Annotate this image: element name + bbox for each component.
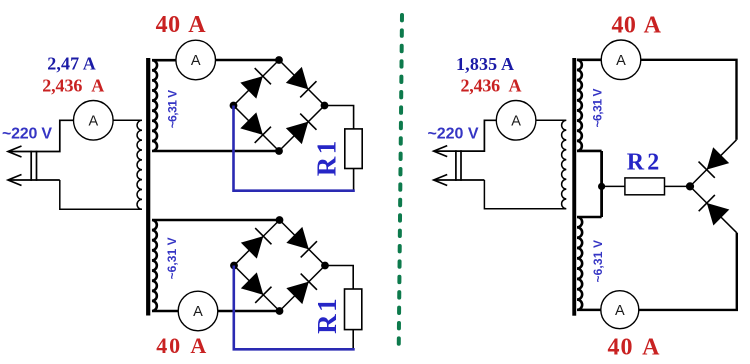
node bridge2 right xyxy=(321,262,329,270)
wire xyxy=(8,120,74,151)
ammeter A (bottom-right 40 A) xyxy=(601,291,639,329)
resistor R1 (lower) xyxy=(345,289,362,330)
wire upper diode arm xyxy=(690,140,737,187)
svg-text:A: A xyxy=(511,113,521,129)
node diode junction xyxy=(686,182,694,190)
svg-text:R 1: R 1 xyxy=(311,141,341,177)
svg-text:A: A xyxy=(191,53,201,69)
svg-text:R 2: R 2 xyxy=(627,149,660,175)
divider dashed line xyxy=(399,15,402,351)
svg-text:~6,31 V: ~6,31 V xyxy=(166,90,180,129)
wire bridge right to R1 xyxy=(325,106,354,129)
bridge rectifier VD2 diamond xyxy=(234,220,325,311)
transformer T1 core xyxy=(146,58,150,316)
wire (blue) bridge1 left node to R1 bottom xyxy=(234,106,355,191)
node bridge2 top xyxy=(276,216,284,224)
wire top-right ammeter to right rail xyxy=(641,60,737,140)
node bridge2 bottom xyxy=(276,307,284,315)
svg-text:40 A: 40 A xyxy=(156,333,206,358)
transformer T2 core xyxy=(572,58,576,316)
bridge rectifier VD1 diamond xyxy=(234,60,325,151)
wire xyxy=(434,179,485,181)
svg-text:40 A: 40 A xyxy=(608,334,661,360)
arrow top terminal xyxy=(434,146,448,157)
svg-text:40 A: 40 A xyxy=(156,12,207,38)
AC source ~220 V terminals (left circuit) xyxy=(8,120,74,185)
svg-text:A: A xyxy=(616,53,626,69)
ammeter A (top-right 40 A) xyxy=(601,40,641,80)
svg-text:2,436 A: 2,436 A xyxy=(461,76,522,96)
diode VD2.1 (left-top arm) xyxy=(241,228,272,259)
svg-text:~6,31 V: ~6,31 V xyxy=(591,240,605,283)
wire center tap to R2 xyxy=(602,185,625,187)
plug bars xyxy=(31,151,36,181)
svg-text:2,47 A: 2,47 A xyxy=(47,53,96,73)
node bridge2 left xyxy=(230,262,238,270)
wire bridge2 right to R1 lower xyxy=(325,266,353,290)
transformer T1 secondary winding 1 (~6,31 V) xyxy=(152,60,279,151)
diode VD1.2 (top-right arm) xyxy=(286,67,317,98)
svg-text:A: A xyxy=(615,303,625,319)
svg-text:~6,31 V: ~6,31 V xyxy=(591,89,605,128)
wire bottom-right ammeter to right rail xyxy=(639,233,737,310)
arrow bottom-left terminal xyxy=(8,175,22,186)
node bridge1 bottom xyxy=(275,147,283,155)
wire center tap vertical xyxy=(600,151,603,217)
wire xyxy=(434,120,497,151)
node center tap xyxy=(598,183,605,190)
transformer T2 secondary winding upper half (~6,31 V) xyxy=(577,60,602,151)
wire R1 bottom down xyxy=(353,169,355,191)
AC source ~220 V terminals (right circuit) xyxy=(434,120,497,185)
diode VD3 (upper arm) xyxy=(699,147,730,178)
svg-text:R 1: R 1 xyxy=(312,298,342,334)
resistor R1 (upper) xyxy=(345,129,362,169)
svg-text:~6,31 V: ~6,31 V xyxy=(165,237,179,279)
plug bars xyxy=(456,150,461,181)
wire lower diode arm xyxy=(690,186,737,232)
diode VD2.3 (left-bottom arm) xyxy=(241,272,272,303)
svg-text:2,436 A: 2,436 A xyxy=(42,75,104,95)
wire R2 to diode junction xyxy=(665,185,691,187)
ammeter A (lower secondary 40 A) xyxy=(178,291,218,331)
transformer T2 secondary winding lower half (~6,31 V) xyxy=(577,217,602,310)
ammeter A (left primary) xyxy=(74,101,114,141)
transformer T1 secondary winding 2 (~6,31 V) xyxy=(152,220,280,311)
svg-text:~220 V: ~220 V xyxy=(428,126,479,143)
diode VD1.3 (left-bottom arm) xyxy=(240,112,271,143)
node bridge1 right xyxy=(321,102,329,110)
arrow bottom terminal xyxy=(434,175,448,186)
node bridge1 left xyxy=(230,102,238,110)
wire ammeter to bridge bottom xyxy=(218,310,280,313)
node bridge1 top xyxy=(275,56,283,64)
resistor R2 xyxy=(625,178,665,195)
wire xyxy=(8,179,60,181)
wire ammeter to bridge top xyxy=(216,59,280,62)
wire R1 lower bottom down xyxy=(352,330,354,350)
ammeter A (upper secondary 40 A) xyxy=(176,40,216,80)
transformer T1 primary winding xyxy=(60,120,142,209)
diode VD2.2 (top-right arm) xyxy=(286,227,317,258)
diode VD4 (lower arm) xyxy=(699,195,730,226)
ammeter A (right primary) xyxy=(496,101,536,141)
wire (blue) bridge2 left node to R1 lower bottom xyxy=(234,266,355,350)
svg-text:1,835 A: 1,835 A xyxy=(456,54,514,74)
svg-text:A: A xyxy=(88,113,98,129)
svg-text:40 A: 40 A xyxy=(612,12,662,38)
diode VD2.4 (bottom-right arm) xyxy=(286,274,317,305)
diode VD1.4 (bottom-right arm) xyxy=(286,114,317,145)
arrow top-left terminal xyxy=(8,146,22,157)
svg-text:A: A xyxy=(193,304,203,320)
transformer T2 primary winding xyxy=(484,120,566,208)
diode VD1.1 (left-top arm) xyxy=(240,68,271,99)
svg-text:~220 V: ~220 V xyxy=(2,125,52,142)
